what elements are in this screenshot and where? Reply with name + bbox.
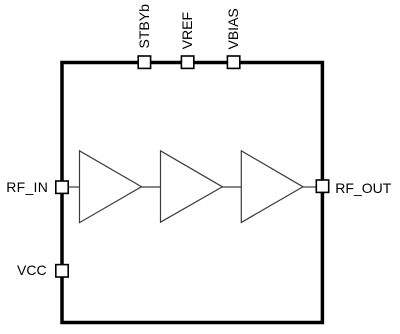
svg-text:RF_IN: RF_IN <box>6 179 48 195</box>
wire amp3 to RF_OUT <box>302 186 316 188</box>
svg-text:RF_OUT: RF_OUT <box>335 180 391 196</box>
amplifier A3 <box>241 151 303 223</box>
wire amp2 to amp3 <box>222 186 242 188</box>
IC block outline <box>62 63 322 323</box>
svg-text:VREF: VREF <box>179 12 195 49</box>
pin VCC <box>56 265 68 277</box>
pin STBYb <box>138 56 150 68</box>
svg-text:VCC: VCC <box>17 262 47 278</box>
svg-text:VBIAS: VBIAS <box>225 8 241 49</box>
wire RF_IN to amp1 <box>69 186 80 188</box>
pin RF_IN <box>56 181 68 193</box>
amplifier A2 <box>161 151 223 222</box>
amplifier A1 <box>80 151 142 223</box>
svg-text:STBYb: STBYb <box>136 4 152 49</box>
pin VBIAS <box>227 56 239 68</box>
pin VREF <box>181 56 193 68</box>
wire amp1 to amp2 <box>141 186 161 188</box>
pin RF_OUT <box>316 180 328 192</box>
